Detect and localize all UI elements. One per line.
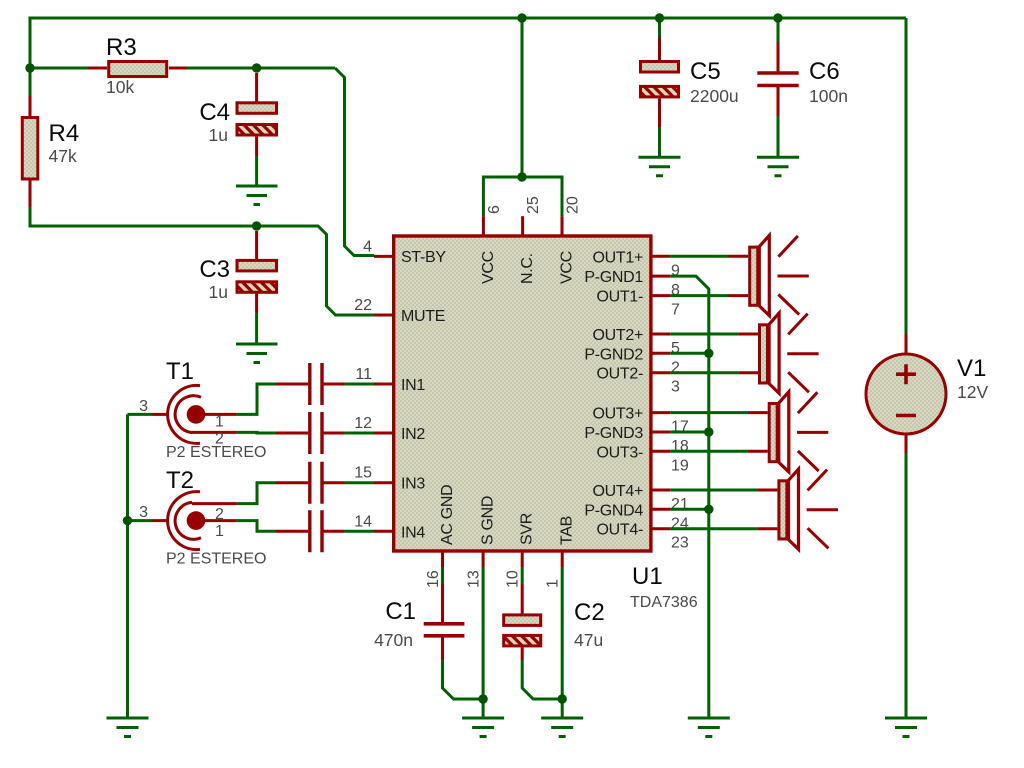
ground C3 xyxy=(236,344,278,363)
wire C4 node to pin4 ST-BY xyxy=(335,68,374,256)
wire P-GND2 to ground bus xyxy=(670,352,709,355)
svg-text:100n: 100n xyxy=(809,86,848,106)
wire P-GND3 to ground bus xyxy=(670,431,709,434)
U1 pin 20 VCC stub xyxy=(561,216,564,236)
svg-text:OUT4-: OUT4- xyxy=(596,522,643,539)
ground C5 xyxy=(639,157,681,176)
svg-text:V1: V1 xyxy=(957,355,986,382)
svg-text:TAB: TAB xyxy=(559,516,576,545)
ground S GND xyxy=(462,718,504,737)
wire OUT4- to speaker LS4 xyxy=(670,527,757,530)
svg-text:3: 3 xyxy=(139,398,148,415)
svg-text:1: 1 xyxy=(215,414,224,431)
wire T2 pin3 to left rail xyxy=(128,519,153,522)
wire P-GND1 to ground bus xyxy=(670,276,709,718)
U1 pin 6 VCC stub xyxy=(482,216,485,236)
wire pin10 to C2 xyxy=(521,567,524,584)
connector T1 P2 ESTEREO xyxy=(139,358,266,461)
capacitor C1 xyxy=(374,584,464,660)
U1 pin 15 IN3 stub xyxy=(374,481,393,484)
U1 pin 12 IN2 stub xyxy=(374,432,393,435)
U1 right stubs OUT/P-GND xyxy=(650,256,670,528)
wire OUT2+ to speaker LS2 xyxy=(670,333,738,336)
wire pin13 S GND to ground xyxy=(482,567,485,718)
svg-text:OUT1-: OUT1- xyxy=(596,289,643,306)
wire OUT3- to speaker LS3 xyxy=(670,450,748,453)
wire top V+ rail xyxy=(30,18,906,68)
svg-text:VCC: VCC xyxy=(559,251,576,284)
capacitor input IN1 xyxy=(276,363,344,405)
wire R3 right to C4 node xyxy=(187,67,335,70)
svg-text:T2: T2 xyxy=(166,467,194,494)
svg-text:47k: 47k xyxy=(49,146,77,166)
U1 bottom pin numbers vertical xyxy=(425,570,562,588)
wire IN1 cap to pin11 xyxy=(344,383,374,386)
svg-text:3: 3 xyxy=(671,379,680,396)
speaker LS3 xyxy=(748,392,828,472)
capacitor input IN2 xyxy=(276,412,344,454)
ground TAB xyxy=(541,718,583,737)
wire IN3 cap to pin15 xyxy=(344,481,374,484)
wire T2 tip to IN4 cap xyxy=(237,521,276,532)
svg-text:OUT4+: OUT4+ xyxy=(592,483,643,500)
U1 right pin numbers xyxy=(671,262,689,551)
battery V1 xyxy=(866,18,988,718)
svg-text:11: 11 xyxy=(355,366,372,383)
U1 pin 22 MUTE stub xyxy=(374,314,393,317)
svg-text:6: 6 xyxy=(486,205,503,214)
svg-text:16: 16 xyxy=(425,570,442,588)
ground P-GND bus xyxy=(688,718,730,737)
wire C3 to ground xyxy=(255,313,258,344)
node C6 rail junction xyxy=(773,13,782,22)
svg-text:AC GND: AC GND xyxy=(439,485,456,545)
svg-text:10: 10 xyxy=(505,570,522,588)
wire IN2 cap to pin12 xyxy=(344,432,374,435)
svg-text:20: 20 xyxy=(565,196,582,214)
wire OUT4+ to speaker LS4 xyxy=(670,489,757,492)
node VCC rail junction xyxy=(517,13,526,22)
svg-text:TDA7386: TDA7386 xyxy=(630,594,698,611)
U1 pin 14 IN4 stub xyxy=(374,530,393,533)
svg-text:25: 25 xyxy=(525,196,542,214)
svg-text:ST-BY: ST-BY xyxy=(401,249,446,266)
U1 bottom pin names vertical xyxy=(439,485,576,545)
svg-text:R3: R3 xyxy=(106,34,137,61)
ground left rail xyxy=(107,718,149,737)
wire VCC bus xyxy=(483,177,562,216)
capacitor C6 xyxy=(757,18,848,157)
svg-text:14: 14 xyxy=(354,513,372,530)
svg-text:IN1: IN1 xyxy=(401,377,425,394)
svg-text:12: 12 xyxy=(354,415,372,432)
svg-text:3: 3 xyxy=(139,504,148,521)
svg-text:1: 1 xyxy=(215,523,224,540)
svg-text:OUT1+: OUT1+ xyxy=(592,249,643,266)
svg-text:R4: R4 xyxy=(49,120,80,147)
wire T1 tip to IN1 cap xyxy=(237,384,276,414)
capacitor C3 xyxy=(199,231,276,313)
svg-text:OUT2+: OUT2+ xyxy=(592,327,643,344)
wire C4 to ground xyxy=(255,156,258,186)
capacitor input IN3 xyxy=(276,462,344,504)
op-amp U1 TDA7386 body xyxy=(394,236,651,551)
wire OUT2- to speaker LS2 xyxy=(670,371,738,374)
svg-text:OUT2-: OUT2- xyxy=(596,366,643,383)
svg-text:19: 19 xyxy=(671,457,689,474)
wire pin1 TAB to ground xyxy=(561,567,564,718)
capacitor input IN4 xyxy=(276,510,344,552)
svg-text:2: 2 xyxy=(215,506,224,523)
svg-text:T1: T1 xyxy=(166,358,194,385)
node C5 rail junction xyxy=(655,13,664,22)
svg-text:470n: 470n xyxy=(374,630,413,650)
svg-text:2: 2 xyxy=(215,431,224,448)
ground V1 xyxy=(885,718,927,737)
U1 left pin numbers xyxy=(354,239,372,531)
node VCC bus junction xyxy=(517,172,526,181)
svg-text:P-GND4: P-GND4 xyxy=(584,502,643,519)
U1 top pin names vertical xyxy=(480,251,576,284)
wire R4 bottom to MUTE row xyxy=(30,207,374,315)
speaker LS4 xyxy=(758,469,838,549)
wire T2 ring to IN3 cap xyxy=(237,483,276,504)
U1 top pin numbers vertical xyxy=(486,196,582,214)
U1 pin 11 IN1 stub xyxy=(374,383,393,386)
U1 pin 25 N.C. stub xyxy=(521,216,524,236)
svg-text:23: 23 xyxy=(671,535,689,552)
svg-text:C4: C4 xyxy=(199,99,230,126)
capacitor C4 xyxy=(199,73,276,156)
svg-text:C5: C5 xyxy=(690,58,721,85)
svg-text:C2: C2 xyxy=(574,599,605,626)
wire IN4 cap to pin14 xyxy=(344,530,374,533)
wire pin16 to C1 xyxy=(441,567,444,584)
svg-text:C3: C3 xyxy=(199,256,230,283)
wire VCC drop from top rail xyxy=(521,18,524,177)
wire C1 to S GND node xyxy=(443,660,484,699)
wire T1 pin3 to left rail xyxy=(128,413,153,416)
node P-GND3 junction xyxy=(704,427,713,436)
U1 left pin names xyxy=(401,249,446,541)
capacitor C2 xyxy=(504,584,605,660)
svg-text:OUT3-: OUT3- xyxy=(596,444,643,461)
ground C4 xyxy=(236,186,278,205)
node C3 junction xyxy=(252,221,261,230)
svg-text:P-GND1: P-GND1 xyxy=(584,269,643,286)
svg-text:P-GND3: P-GND3 xyxy=(584,425,643,442)
wire T1 ring to IN2 cap xyxy=(237,431,276,435)
node C4 junction xyxy=(252,63,261,72)
svg-text:IN3: IN3 xyxy=(401,476,425,493)
U1 pin 1 TAB stub xyxy=(561,551,564,567)
svg-text:1: 1 xyxy=(545,579,562,588)
wire OUT1+ to speaker LS1 xyxy=(670,255,728,258)
svg-text:C1: C1 xyxy=(385,598,416,625)
wire OUT1- to speaker LS1 xyxy=(670,294,728,297)
wire P-GND4 to ground bus xyxy=(670,508,709,511)
svg-text:1u: 1u xyxy=(209,282,228,302)
U1 pin 13 S GND stub xyxy=(482,551,485,567)
svg-text:12V: 12V xyxy=(957,382,988,402)
U1 pin 10 SVR stub xyxy=(521,551,524,567)
svg-text:15: 15 xyxy=(354,465,372,482)
speaker LS2 xyxy=(738,313,818,393)
capacitor C5 xyxy=(641,18,739,157)
wire OUT3+ to speaker LS3 xyxy=(670,411,748,414)
svg-text:MUTE: MUTE xyxy=(401,308,445,325)
speaker LS1 xyxy=(729,235,809,315)
svg-text:N.C.: N.C. xyxy=(519,253,536,284)
wire C2 to TAB node xyxy=(522,660,562,699)
resistor R4 xyxy=(22,96,79,207)
svg-text:P-GND2: P-GND2 xyxy=(584,346,643,363)
node C2 junction xyxy=(558,694,567,703)
svg-text:SVR: SVR xyxy=(519,513,536,545)
ground C6 xyxy=(757,157,799,176)
svg-text:IN2: IN2 xyxy=(401,426,425,443)
svg-text:4: 4 xyxy=(363,239,372,256)
node P-GND4 junction xyxy=(704,505,713,514)
svg-text:OUT3+: OUT3+ xyxy=(592,406,643,423)
wire left rail R3/R4 branch xyxy=(30,67,88,70)
U1 right pin names xyxy=(584,249,643,538)
U1 pin 16 AC GND stub xyxy=(441,551,444,567)
svg-text:10k: 10k xyxy=(106,77,134,97)
svg-text:2200u: 2200u xyxy=(690,86,739,106)
svg-text:IN4: IN4 xyxy=(401,524,425,541)
node T2 pin3 junction xyxy=(123,516,132,525)
svg-text:U1: U1 xyxy=(632,563,663,590)
node P-GND2 junction xyxy=(704,349,713,358)
svg-text:47u: 47u xyxy=(574,630,603,650)
resistor R3 xyxy=(88,34,187,97)
wire left rail down to ground xyxy=(126,414,129,718)
wire R4 top xyxy=(29,68,32,96)
U1 pin 4 ST-BY stub xyxy=(374,255,393,258)
connector T2 P2 ESTEREO xyxy=(139,467,266,568)
svg-text:VCC: VCC xyxy=(480,251,497,284)
svg-text:S GND: S GND xyxy=(480,496,497,545)
node R3/R4 junction xyxy=(25,63,34,72)
svg-text:13: 13 xyxy=(466,570,483,588)
node C1 junction xyxy=(478,694,487,703)
svg-text:22: 22 xyxy=(354,297,372,314)
svg-text:7: 7 xyxy=(671,302,680,319)
svg-text:C6: C6 xyxy=(809,58,840,85)
svg-text:P2 ESTEREO: P2 ESTEREO xyxy=(166,551,266,568)
svg-text:1u: 1u xyxy=(209,125,228,145)
